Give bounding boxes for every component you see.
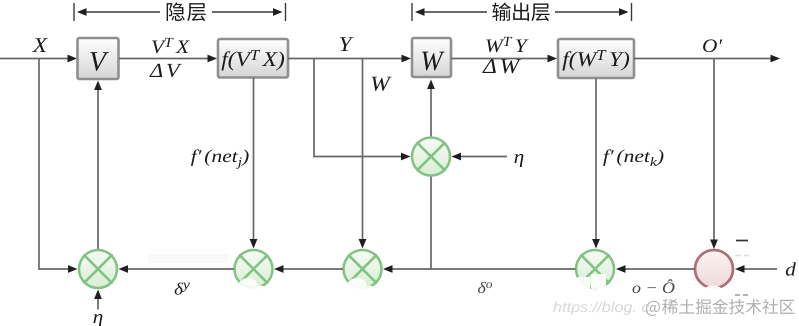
label 隐层 (hidden layer) <box>167 2 206 21</box>
multiplier M2 <box>235 250 273 288</box>
wire M2 to M1 <box>119 265 235 273</box>
label delta-y <box>175 283 190 295</box>
watermark url text <box>553 301 649 315</box>
box f(WTY) U2 <box>558 39 634 78</box>
wire V to f(VTX) <box>119 55 217 63</box>
watermark white fragment below error node <box>702 286 725 302</box>
wire output O' <box>634 55 780 63</box>
multiplier M1 <box>79 250 117 288</box>
wire W to f(WTY) <box>451 55 557 63</box>
wire f(WTY) derivative down to M4 <box>592 79 600 249</box>
hidden-layer bracket left arrow <box>77 8 160 16</box>
wire d input into error node <box>735 265 777 273</box>
output-layer bracket left tick <box>411 3 413 21</box>
multiplier M4 <box>576 250 614 288</box>
multiplier M5 (eta x delta) <box>412 138 450 176</box>
label eta mid <box>514 154 523 167</box>
output-layer bracket right tick <box>631 3 633 21</box>
output-layer bracket left arrow <box>415 8 487 16</box>
box W <box>412 38 451 77</box>
label f'(net_k) <box>603 149 663 166</box>
wire M5 up into box W (weight update) <box>427 80 435 138</box>
label eta bottom <box>93 314 102 326</box>
label delta-o <box>478 282 492 293</box>
error node (d minus O) <box>695 250 733 288</box>
label delta-V <box>149 64 181 78</box>
wire f(VTX) to box W, carries Y <box>288 55 411 63</box>
watermark faint band <box>148 254 228 263</box>
watermark white fragment over M2 <box>239 278 268 295</box>
wire M1 up into box V (weight update) <box>94 81 102 250</box>
label O' <box>703 39 722 52</box>
box f(VTX) U1 <box>218 39 288 78</box>
hidden-layer bracket left tick <box>73 3 75 21</box>
label Y <box>340 37 354 51</box>
watermark faint dash right of error node <box>735 255 749 257</box>
wire O' branch down to error node <box>710 59 718 250</box>
hidden-layer bracket right arrow <box>212 8 283 16</box>
label f'(net_j) <box>191 149 249 168</box>
wire M3 to M2 <box>274 265 343 273</box>
hidden-layer bracket right tick <box>285 3 287 21</box>
watermark white fragment over M4 <box>560 274 606 289</box>
label W on branch <box>372 77 392 91</box>
label delta-W <box>482 59 521 73</box>
label o minus O-hat <box>633 279 675 293</box>
wire eta into M5 <box>452 153 508 161</box>
watermark @稀土掘金技术社区 <box>646 299 795 316</box>
output-layer bracket right arrow <box>555 8 629 16</box>
label 输出层 (output layer) <box>492 3 549 22</box>
wire X input into box V <box>0 55 77 63</box>
label WTY <box>486 37 528 52</box>
wire eta into M1 from below <box>94 290 102 310</box>
multiplier M3 <box>344 250 382 288</box>
wire M4 to M3 <box>383 265 576 273</box>
wire error node to M4 <box>616 265 695 273</box>
wire X branch down to multiplier M1 <box>39 59 78 273</box>
wire M5 down to bottom junction <box>430 176 432 269</box>
wire Y branch down then right into M5 <box>314 59 411 161</box>
minus sign at error node <box>736 240 748 242</box>
watermark white fragment over M3 <box>348 278 377 295</box>
box V <box>78 38 119 79</box>
label d <box>786 262 796 275</box>
wire f(VTX) derivative down to M2 <box>250 78 258 249</box>
label VTX <box>152 38 190 53</box>
label X <box>32 38 48 52</box>
watermark small dashes <box>735 294 748 296</box>
wire W branch down to M3 <box>359 59 367 249</box>
